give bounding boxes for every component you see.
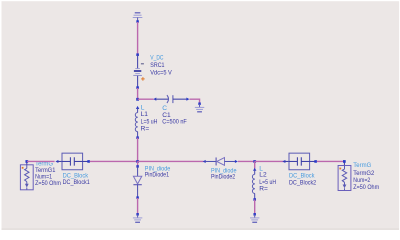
node: bias junction [136, 98, 139, 101]
svg-text:DC_Block2: DC_Block2 [289, 179, 316, 186]
label L L2 L=5 uH R= [259, 165, 276, 192]
wire: DC_Block2 to TermG2 [317, 160, 344, 162]
wire: top ground to SRC1 [137, 22, 139, 55]
label TermG TermG2 Num=2 Z=50 Ohm [353, 162, 379, 191]
wire: junction to C1 [138, 98, 154, 100]
svg-text:Vdc=5 V: Vdc=5 V [150, 70, 172, 77]
svg-text:SRC1: SRC1 [150, 62, 164, 69]
svg-text:DC_Block1: DC_Block1 [63, 179, 90, 186]
svg-text:Z=50 Ohm: Z=50 Ohm [353, 184, 379, 191]
wire: L2 junction to DC_Block2 [255, 160, 284, 162]
svg-text:L1: L1 [141, 111, 149, 118]
wire: DC_Block1 to center junction [90, 160, 138, 162]
wire: C1 to right ground [190, 99, 200, 103]
node: L2 bus junction [253, 160, 256, 163]
svg-text:L=5 uH: L=5 uH [141, 118, 158, 125]
label C C1 C=500 nF [162, 105, 187, 126]
svg-text:Z=50 Ohm: Z=50 Ohm [35, 180, 61, 187]
PIN diode PinDiode2 (horizontal, cathode left) [203, 157, 238, 165]
ground GND right of C1 [195, 104, 204, 112]
wire: PinDiode2 to L2 junction [238, 160, 255, 162]
terminal TermG2 [338, 166, 351, 191]
PIN diode PinDiode1 (vertical) [133, 161, 141, 198]
node: center bus junction [136, 160, 139, 163]
DC block DC_Block2 [282, 153, 317, 170]
node: TermG1 / bus [25, 160, 28, 163]
wire: L2 to bottom ground [254, 200, 256, 215]
TermG1 stub to bus [26, 161, 28, 164]
ground GND under L2 [250, 215, 259, 223]
svg-text:R=: R= [259, 185, 268, 192]
ground GND under PinDiode1 [133, 215, 142, 223]
pin1 marker (orange) of TermG2 [339, 168, 341, 170]
label L L1 L=5 uH R= [141, 105, 158, 133]
svg-text:PinDiode1: PinDiode1 [145, 172, 169, 179]
wire: TermG1 to DC_Block1 [27, 160, 55, 162]
DC block DC_Block1 [55, 153, 90, 170]
capacitor C1 [153, 95, 189, 103]
wire: center junction to PinDiode2 [138, 160, 204, 162]
label TermG TermG1 Num=1 Z=50 Ohm [35, 161, 61, 187]
svg-text:R=: R= [141, 125, 150, 132]
inductor L1 [135, 106, 139, 139]
node: ground pin under PinDiode1 [136, 213, 139, 216]
pin1 marker (orange) of TermG1 [22, 167, 24, 169]
wire: SRC1 to bias junction [137, 88, 139, 99]
inductor L2 [252, 168, 256, 201]
svg-text:V_DC: V_DC [150, 55, 163, 62]
svg-text:TermG: TermG [353, 162, 371, 169]
svg-text:L2: L2 [259, 172, 267, 179]
label DC_Block DC_Block2 [289, 172, 316, 186]
wire: junction down to L2 [254, 161, 256, 168]
label PIN_diode PinDiode2 [211, 167, 237, 180]
node: TermG2 / bus [343, 160, 346, 163]
svg-text:PinDiode2: PinDiode2 [211, 174, 235, 181]
node: ground pin under L2 [253, 213, 256, 216]
label PIN_diode PinDiode1 [145, 165, 171, 178]
svg-text:C=500 nF: C=500 nF [162, 119, 187, 126]
minus polarity mark [141, 63, 144, 65]
node: top ground junction [136, 20, 139, 23]
wire: PinDiode1 to bottom ground [137, 198, 139, 214]
terminal TermG1 [20, 161, 33, 189]
ground GND top (flipped, above SRC1) [133, 13, 143, 21]
svg-text:C: C [162, 105, 167, 112]
wire: L1 to RF bus [137, 138, 139, 162]
plus polarity mark [141, 77, 145, 81]
node: C1 ground pin [198, 102, 201, 105]
voltage source V_DC SRC1 [133, 53, 144, 89]
label V_DC SRC1 Vdc=5 V [150, 55, 172, 77]
label DC_Block DC_Block1 [63, 172, 90, 186]
